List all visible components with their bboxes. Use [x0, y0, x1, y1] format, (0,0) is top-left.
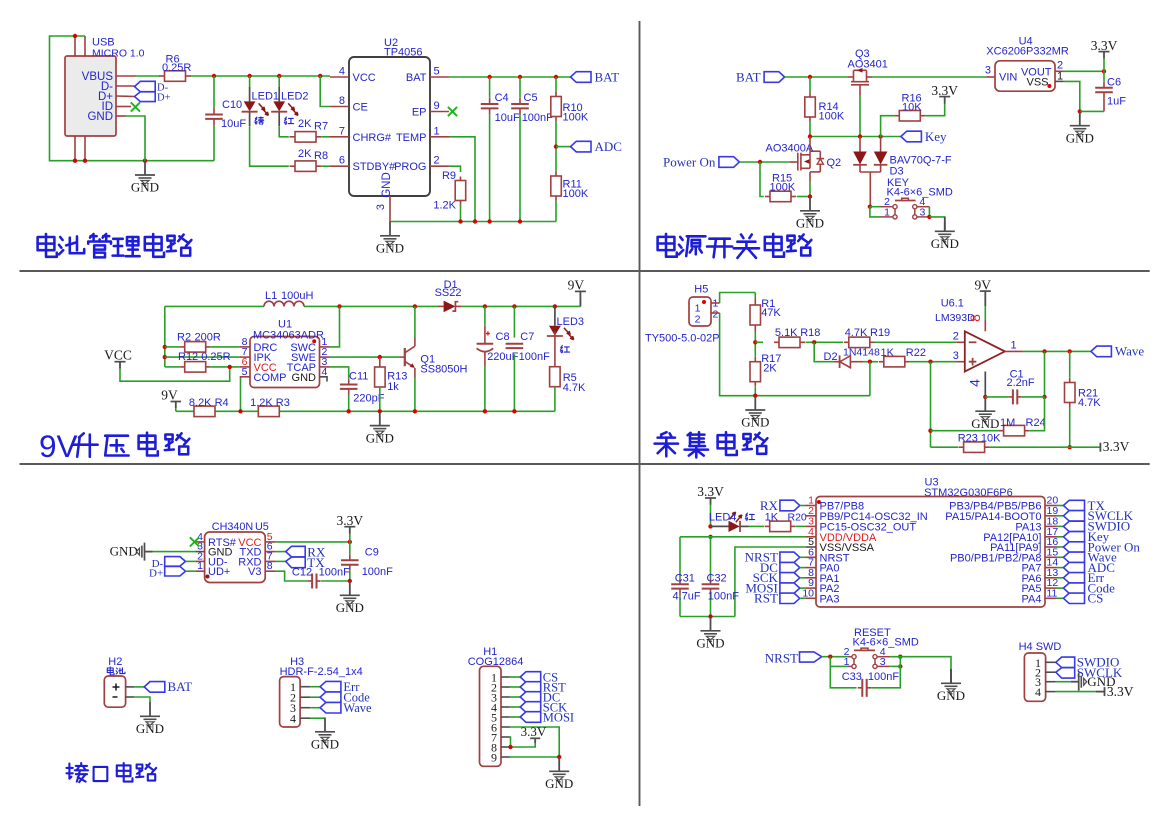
svg-text:GND: GND: [131, 180, 159, 195]
svg-text:C12: C12: [292, 566, 312, 578]
switch RESET body: [848, 648, 890, 666]
svg-text:C8: C8: [496, 331, 510, 343]
svg-text:R7: R7: [314, 121, 328, 133]
opamp power pin 8: [980, 290, 991, 292]
wire node3 down to gnd rail: [869, 362, 871, 396]
IC U5 CH340N: [205, 532, 266, 583]
pin 1 PB7/PB8 of U3: [806, 505, 816, 507]
pin 3 GND of U5: [195, 551, 204, 553]
net flag CS (H1): [510, 676, 520, 678]
svg-text:R2: R2: [177, 332, 191, 344]
svg-text:R9: R9: [442, 170, 456, 182]
svg-text:10uF: 10uF: [495, 112, 520, 124]
svg-text:GND: GND: [292, 372, 317, 384]
svg-text:VIN: VIN: [999, 72, 1017, 84]
svg-text:3: 3: [880, 656, 886, 668]
svg-text:C7: C7: [520, 331, 534, 343]
svg-text:9: 9: [491, 751, 497, 765]
diode D2 1N4148: [833, 361, 839, 363]
resistor R5 4.7K: [554, 331, 556, 366]
net flag RST (U3 left): [780, 593, 800, 603]
pin 5 VCC of U5: [265, 541, 275, 543]
svg-text:GND: GND: [971, 416, 999, 431]
svg-text:R8: R8: [314, 150, 328, 162]
pin stub D-: [116, 85, 135, 87]
wire R19 to opamp in-: [875, 341, 957, 343]
wire R16 right to 3.3V: [925, 103, 944, 116]
wire H3 pin4 to gnd: [310, 717, 325, 719]
pin stub D+: [116, 95, 135, 98]
svg-text:NRST: NRST: [765, 650, 798, 665]
svg-text:2: 2: [713, 309, 719, 321]
pin 13 PA6 of U3: [1045, 577, 1057, 579]
svg-text:4: 4: [967, 379, 983, 387]
left feed rail: [164, 306, 166, 367]
connector H5 TY500-5.0-02P: [689, 297, 711, 326]
svg-text:GND: GND: [366, 430, 394, 445]
ground GND under Q2: [800, 197, 820, 222]
pin 6 VCC of U1: [240, 366, 250, 368]
power 3.3V MCU: [705, 497, 716, 499]
wire H5 pin2 to gnd rail: [720, 313, 871, 396]
resistor R2 200R: [180, 346, 185, 348]
svg-text:4.7K: 4.7K: [845, 327, 868, 339]
svg-text:10uF: 10uF: [221, 118, 246, 130]
svg-text:3: 3: [985, 65, 991, 77]
net flag BAT: [571, 72, 592, 83]
resistor R16 10K: [894, 115, 899, 117]
net flag RX (U3): [780, 500, 800, 511]
svg-text:XC6206P332MR: XC6206P332MR: [986, 46, 1069, 58]
svg-text:3.3V: 3.3V: [1107, 684, 1134, 699]
pin 7 PA0 of U3: [806, 567, 816, 569]
capacitor C32 100nF: [710, 537, 712, 578]
LED LED4 red: [711, 525, 729, 527]
resistor R6 0.25R: [159, 75, 165, 77]
wire H1 pin8 to 3.3V: [510, 742, 535, 748]
net flag Key (U3 right): [1057, 536, 1064, 538]
pin 3 PC15-OSC32_OUT of U3: [806, 525, 816, 527]
svg-text:BAT: BAT: [736, 69, 761, 84]
ground GND opamp: [975, 397, 995, 422]
wire VSS down: [735, 547, 806, 617]
svg-text:BAT: BAT: [595, 69, 620, 84]
svg-text:5.1K: 5.1K: [775, 327, 798, 339]
wire R15 to gnd node: [797, 196, 810, 198]
svg-text:H5: H5: [694, 284, 708, 296]
pin 7 IPK of U1: [240, 356, 250, 358]
wire H1 pin9 to gnd: [510, 756, 559, 758]
svg-text:GND: GND: [696, 636, 724, 651]
svg-text:4: 4: [1035, 685, 1041, 699]
svg-text:4.7uF: 4.7uF: [673, 590, 701, 602]
svg-text:4.7K: 4.7K: [563, 382, 586, 394]
net flag D+: [135, 92, 156, 102]
wire NRST to switch: [822, 656, 848, 658]
svg-text:D+: D+: [157, 93, 171, 104]
pin 20 PB3/PB4/PB5/PB6 of U3: [1045, 505, 1057, 507]
svg-text:5: 5: [242, 366, 248, 378]
net flag Err (U3 right): [1057, 577, 1064, 579]
wire R17 to gnd rail: [754, 387, 756, 396]
wire Q3 to U4: [872, 76, 987, 78]
net flag Power On (U3 right): [1057, 546, 1064, 548]
svg-text:5: 5: [434, 66, 440, 78]
pin 7 RXD of U5: [265, 560, 275, 562]
section title 电源开关电路: [665, 234, 668, 237]
svg-text:1.2K: 1.2K: [433, 200, 456, 212]
net flag TX (U3 right): [1057, 505, 1064, 507]
svg-text:3: 3: [375, 204, 387, 210]
pin 5 BAT of U2: [430, 76, 449, 78]
wire R7 to pin7: [322, 136, 330, 138]
net flag DC (U3 left): [780, 562, 800, 572]
svg-text:AO3401: AO3401: [848, 59, 888, 71]
svg-text:Power On: Power On: [663, 154, 716, 169]
svg-text:C5: C5: [524, 92, 538, 104]
net flag Code (H3): [310, 696, 320, 698]
svg-text:9V: 9V: [568, 278, 585, 293]
svg-text:1k: 1k: [387, 381, 399, 393]
pin4 gnd stub of U1: [320, 377, 328, 382]
resistor R8 2K: [290, 165, 296, 167]
wire LED2 to R7: [279, 126, 289, 136]
gnd rail U2: [390, 221, 556, 223]
wire R21 down to 3.3V rail: [1069, 407, 1071, 447]
pin 2 PROG of U2: [430, 165, 449, 167]
svg-text:9: 9: [434, 100, 440, 112]
svg-text:100nF: 100nF: [519, 351, 550, 363]
svg-text:100nF: 100nF: [708, 590, 739, 602]
pin 18 PA13 of U3: [1045, 525, 1057, 527]
net flag D-: [135, 81, 156, 91]
section title 采集电路: [661, 432, 666, 434]
svg-text:1.2K R3: 1.2K R3: [250, 397, 290, 409]
svg-text:ADC: ADC: [595, 139, 622, 154]
svg-text:MICRO 1.0: MICRO 1.0: [92, 48, 145, 60]
ground GND under C9: [340, 581, 360, 606]
pin 1 TEMP of U2: [430, 136, 449, 138]
pin 6 NRST of U3: [806, 556, 816, 558]
resistor R23 10K: [931, 446, 959, 448]
wire CE pin: [320, 76, 330, 107]
wire PROG to R9: [449, 166, 461, 172]
svg-text:100K: 100K: [819, 111, 845, 123]
svg-text:R24: R24: [1026, 417, 1046, 429]
svg-text:CH340N: CH340N: [212, 521, 253, 533]
wire SWC up: [330, 306, 340, 347]
svg-text:R23 10K: R23 10K: [958, 432, 1001, 444]
wire BAT to Q3: [785, 76, 848, 78]
ground GND boost: [370, 411, 390, 436]
net flag Power On: [719, 157, 740, 168]
svg-text:VSS: VSS: [1026, 77, 1048, 89]
IC U2 TP4056: [349, 57, 430, 196]
pin stub VBUS: [116, 75, 136, 77]
net flag SWCLK (H4): [1056, 668, 1075, 678]
net flag Key: [901, 131, 922, 142]
svg-text:9V: 9V: [39, 428, 78, 464]
wire row8: [165, 346, 180, 348]
svg-text:RST: RST: [754, 591, 778, 606]
svg-text:8.2K R4: 8.2K R4: [189, 397, 229, 409]
svg-text:C32: C32: [707, 572, 727, 584]
svg-text:PROG: PROG: [394, 161, 426, 173]
pin 1 SWC of U1: [320, 346, 330, 348]
LED LED1 green: [249, 76, 251, 87]
capacitor C11 220pF: [348, 379, 350, 385]
svg-text:C31: C31: [675, 572, 695, 584]
wire R10 to ADC node: [555, 121, 557, 172]
svg-text:V3: V3: [248, 566, 261, 578]
capacitor C12 100nF: [308, 580, 312, 582]
svg-text:Wave: Wave: [343, 701, 372, 715]
svg-text:1K: 1K: [881, 347, 895, 359]
ground GND reset: [941, 669, 961, 694]
resistor R15 100K: [765, 196, 770, 198]
svg-text:C10: C10: [222, 99, 242, 111]
svg-text:GND: GND: [136, 721, 164, 736]
wire node2 down to D2: [814, 342, 833, 361]
svg-text:C9: C9: [365, 547, 379, 559]
capacitor C5 100nF: [519, 77, 521, 98]
resistor R14 100K: [809, 77, 811, 93]
capacitor C10 10uF: [213, 76, 215, 108]
svg-text:H4 SWD: H4 SWD: [1019, 641, 1062, 653]
resistor R9 1.2K: [460, 177, 462, 181]
svg-text:3.3V: 3.3V: [931, 83, 958, 98]
top rail D1 to 9V: [462, 305, 581, 307]
net flag SCK (U3 left): [780, 573, 800, 583]
resistor R24 1M: [999, 430, 1004, 432]
svg-text:4: 4: [290, 712, 296, 726]
svg-text:3.3V: 3.3V: [521, 724, 547, 739]
pin 9 EP of U2: [430, 111, 449, 113]
svg-text:8: 8: [967, 314, 983, 322]
svg-text:D+: D+: [149, 568, 163, 580]
wire H4 pin4 to 3.3V: [1056, 691, 1096, 693]
wire R2 to pin8: [210, 346, 240, 348]
svg-text:8: 8: [339, 95, 345, 107]
capacitor C4 10uF: [489, 77, 491, 98]
pin 4 RTS# of U5: [195, 541, 204, 543]
pin 9 PA2 of U3: [806, 587, 816, 589]
svg-text:GND: GND: [937, 688, 965, 703]
wire Q2 drain: [809, 137, 811, 152]
svg-text:100K: 100K: [770, 181, 796, 193]
opamp pin 4 to gnd: [984, 372, 986, 397]
svg-text:Key: Key: [925, 129, 947, 144]
wire C6 bottom to gnd node: [1080, 110, 1104, 112]
gnd rail MCU: [680, 616, 735, 618]
no-connect RTS#: [190, 537, 199, 546]
wire Q1 collector: [414, 338, 416, 346]
section divider horizontal 2: [20, 463, 1150, 465]
wire TEMP to gnd rail: [449, 137, 475, 222]
pin 1 VSS: [1055, 80, 1064, 82]
resistor R12 0.25R: [165, 366, 180, 368]
wire TCAP to C11: [330, 367, 349, 378]
svg-text:100K: 100K: [563, 188, 589, 200]
svg-text:11: 11: [1047, 587, 1058, 599]
svg-text:GND: GND: [1066, 130, 1094, 145]
svg-text:0.25R: 0.25R: [162, 62, 191, 74]
svg-text:3.3V: 3.3V: [1103, 439, 1130, 454]
net flag SWDIO (U3 right): [1057, 525, 1064, 527]
ground GND under U4: [1070, 111, 1090, 136]
svg-text:GND: GND: [110, 543, 138, 558]
resistor R17 2K: [754, 357, 756, 362]
resistor R18 5.1K: [774, 341, 779, 343]
svg-text:K4-6×6_SMD: K4-6×6_SMD: [853, 636, 919, 648]
wire VBUS-GND loop left: [50, 36, 215, 161]
LED LED3 red: [554, 306, 556, 325]
wire R6 to VCC rail: [191, 75, 330, 77]
wire SWE to Q1 base: [330, 356, 400, 358]
net flag NRST (U3 left): [780, 552, 800, 562]
net flag MOSI (U3 left): [780, 583, 800, 593]
wire H1 pin7: [509, 737, 512, 747]
svg-text:GND: GND: [381, 172, 393, 198]
wire D2 to node3: [863, 361, 878, 363]
svg-text:1: 1: [884, 206, 890, 218]
wire R22 to opamp in+: [910, 361, 957, 363]
net flag BAT input: [764, 72, 785, 83]
svg-text:LED1: LED1: [252, 91, 280, 103]
pin 2 UD- of U5: [195, 560, 204, 562]
pin 16 PA11[PA9] of U3: [1045, 546, 1057, 548]
pin stub USB GND: [116, 115, 126, 117]
wire R11 to gnd rail: [555, 201, 557, 222]
svg-text:2K: 2K: [763, 362, 777, 374]
pin 8 PA1 of U3: [806, 577, 816, 579]
wire R12 to pin6: [210, 366, 240, 368]
svg-text:R22: R22: [906, 347, 926, 359]
wire Q3 gate down: [859, 88, 861, 95]
top rail to L1: [165, 305, 264, 307]
svg-text:9V: 9V: [975, 277, 992, 292]
capacitor C31 4.7uF: [679, 537, 681, 578]
net flag CS (U3 right): [1057, 597, 1064, 599]
pin 5 VSS/VSSA of U3: [806, 546, 816, 548]
capacitor C9 100nF: [349, 542, 351, 554]
pin stubs USB top: [74, 36, 76, 56]
resistor R21 4.7K: [1069, 351, 1071, 377]
pin 4 VCC of U2: [330, 76, 349, 78]
dual diode D3 BAV70Q-7-F: [859, 137, 861, 152]
svg-text:TP4056: TP4056: [384, 46, 423, 58]
pin stubs H5: [711, 302, 720, 304]
wire VBUS to R6: [136, 75, 160, 77]
svg-text:2K: 2K: [298, 118, 312, 130]
svg-text:LED3: LED3: [557, 316, 585, 328]
svg-text:100nF: 100nF: [522, 112, 553, 124]
power 3.3V (U4): [1099, 51, 1110, 53]
resistor R1 47K: [754, 293, 756, 299]
diode D1 SS22 schottky: [444, 301, 456, 313]
connector USB MICRO 1.0: [65, 56, 116, 136]
wire H1 pin6 down: [510, 727, 559, 757]
pin + of H2: [126, 686, 135, 688]
svg-text:3.3V: 3.3V: [336, 513, 363, 528]
pin stubs USB bottom: [74, 136, 76, 161]
pin 3 GND of U2: [389, 196, 391, 222]
pin 19 PA15/PA14-BOOT0 of U3: [1045, 515, 1057, 517]
bottom rail: [176, 410, 555, 412]
svg-text:2: 2: [953, 331, 959, 343]
svg-text:COMP: COMP: [254, 372, 287, 384]
net flag ADC (U3 right): [1057, 567, 1064, 569]
IC U4 XC6206P332MR: [995, 61, 1055, 91]
svg-text:GND: GND: [741, 415, 769, 430]
svg-text:LED4: LED4: [709, 512, 737, 524]
pin 17 PA12[PA10] of U3: [1045, 536, 1057, 538]
section title 接口电路: [69, 764, 71, 779]
svg-text:L1: L1: [265, 290, 277, 302]
svg-text:1uF: 1uF: [1107, 96, 1126, 108]
svg-text:1K: 1K: [765, 511, 779, 523]
ground GND under H2: [140, 702, 160, 727]
pin 10 PA3 of U3: [806, 597, 816, 599]
pin 6 TXD of U5: [265, 551, 275, 553]
svg-text:CHRG#: CHRG#: [353, 132, 392, 144]
power 3.3V horizontal: [1099, 443, 1101, 452]
wire R16 left to gate node: [881, 116, 895, 137]
pin 11 PA4 of U3: [1045, 597, 1057, 599]
wire VCC to 3.3V: [275, 541, 350, 543]
svg-text:AO3400A: AO3400A: [766, 143, 814, 155]
pin 7 CHRG# of U2: [330, 136, 349, 138]
capacitor C33 100nF: [830, 666, 856, 687]
svg-text:TY500-5.0-02P: TY500-5.0-02P: [645, 333, 720, 345]
svg-text:LED2: LED2: [281, 91, 309, 103]
ground GND under H3: [315, 718, 335, 743]
wire row7 IPK: [165, 356, 240, 358]
svg-text:1: 1: [844, 656, 850, 668]
net flag NRST (reset): [800, 652, 822, 662]
wire in+ node down: [930, 362, 932, 448]
LED LED2 red: [278, 76, 280, 87]
wire BAT net: [449, 76, 571, 78]
capacitor C6 1uF: [1103, 71, 1105, 81]
pin 15 PB0/PB1/PB2/PA8 of U3: [1045, 556, 1057, 558]
pin - of H2: [126, 696, 135, 698]
net flag SWDIO (H4): [1056, 657, 1075, 667]
section title 电池管理电路: [45, 234, 48, 237]
pin 8 DRC of U1: [240, 346, 250, 348]
svg-text:1: 1: [1057, 71, 1063, 83]
wire Q2 source to gnd node: [809, 172, 811, 181]
wire R20 to pin3: [796, 525, 806, 527]
net flag Wave (H3): [310, 707, 320, 709]
power 3.3V U5: [344, 526, 355, 528]
pin 5 COMP of U1: [240, 376, 250, 378]
net flag SWCLK (U3 right): [1057, 515, 1064, 517]
top rail L1 to D1: [304, 305, 437, 307]
svg-text:47K: 47K: [761, 307, 781, 319]
svg-text:1: 1: [434, 125, 440, 137]
pin 2 PB9/PC14-OSC32_IN of U3: [806, 515, 816, 517]
svg-text:BAT: BAT: [406, 72, 427, 84]
svg-text:2.2nF: 2.2nF: [1007, 377, 1035, 389]
ground GND under H1: [549, 757, 569, 782]
ground GND H4 sideways: [1071, 673, 1087, 691]
resistor R22 1K: [879, 361, 884, 363]
svg-text:EP: EP: [412, 107, 427, 119]
svg-text:C6: C6: [1107, 77, 1121, 89]
svg-text:PA4: PA4: [1022, 593, 1042, 605]
svg-text:6: 6: [339, 155, 345, 167]
